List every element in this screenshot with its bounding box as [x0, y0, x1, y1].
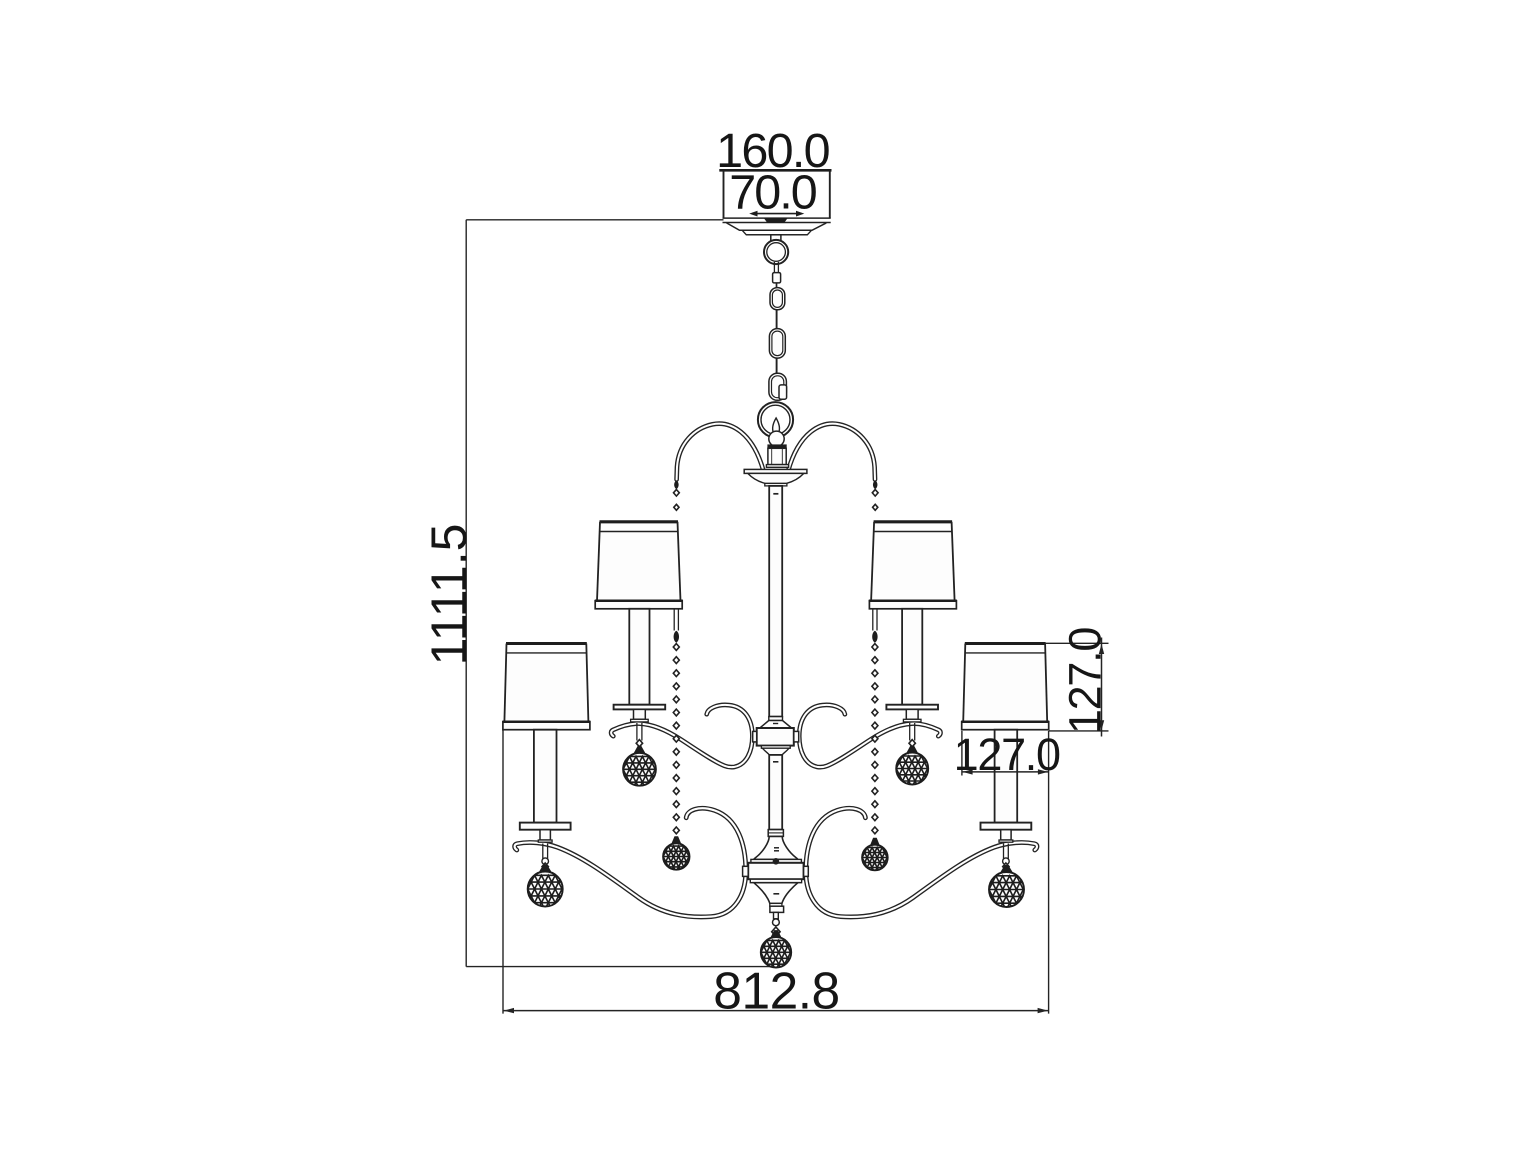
canopy mount block	[764, 218, 788, 223]
arrowhead 812.8 right	[1038, 1008, 1048, 1013]
chain link 1	[770, 288, 785, 310]
chain link 3	[769, 373, 787, 400]
extension line top (canopy bottom)	[466, 219, 723, 221]
chain link 3 sleeve	[779, 385, 787, 399]
upper arc right	[788, 424, 875, 480]
dimension line 812.8	[503, 1010, 1049, 1012]
chain link 2	[769, 329, 785, 359]
svg-text:127.0: 127.0	[954, 729, 1060, 780]
upper arm left	[611, 705, 752, 767]
upper arm right	[799, 705, 940, 767]
upper arc left	[677, 424, 764, 480]
upper cone	[760, 721, 792, 729]
bobeche bowl	[748, 473, 804, 483]
extension line 127.0 top right	[1045, 642, 1109, 644]
lower arm right	[806, 808, 1037, 917]
extension line 127.0 bottom right	[1049, 730, 1109, 732]
shade lower-right	[961, 644, 1049, 730]
mid collar	[768, 830, 783, 837]
chain wire 1	[776, 310, 778, 329]
extension line right 812.8 / 127.0	[1048, 731, 1050, 1014]
clevis link	[773, 262, 775, 273]
top ring	[758, 402, 793, 437]
dimension line 127.0 horizontal	[962, 771, 1049, 773]
extension line left 812.8	[502, 730, 504, 1014]
arrowhead 127.0 v bottom	[1099, 720, 1104, 730]
finial neck	[770, 903, 782, 906]
arc drop right	[873, 480, 878, 489]
column mid section	[769, 755, 782, 830]
top flame	[773, 418, 780, 434]
canopy box	[719, 169, 831, 172]
dimension line 127.0 vertical	[1101, 638, 1103, 737]
extension line 127.0h left	[961, 731, 963, 776]
top candle base	[766, 465, 788, 468]
canopy cone	[727, 223, 827, 230]
dimension arrow 70.0	[752, 213, 802, 215]
lower hub bell	[754, 883, 798, 904]
column upper section	[769, 486, 782, 717]
shade lower-left	[504, 644, 588, 722]
svg-text:1111.5: 1111.5	[421, 524, 477, 666]
shade upper-right	[869, 522, 957, 609]
arrowhead 127.0 h right	[1038, 769, 1048, 774]
arrowhead 812.8 left	[504, 1008, 514, 1013]
top candle body	[768, 448, 786, 464]
chain wire 2	[776, 358, 778, 373]
finial box	[770, 906, 784, 912]
bead chain left	[673, 609, 675, 631]
light lower-right	[995, 730, 1018, 823]
bead chain right	[872, 609, 874, 631]
svg-text:812.8: 812.8	[713, 962, 839, 1020]
column collar upper	[769, 717, 783, 721]
finial diamond	[772, 927, 780, 937]
light upper-right	[902, 609, 922, 705]
dimension line 1111.5 vertical	[465, 220, 467, 967]
top candle ball	[769, 431, 784, 446]
svg-text:127.0: 127.0	[1060, 628, 1111, 734]
upper hub bell	[762, 748, 789, 755]
canopy stem	[771, 235, 781, 246]
lower bell	[754, 836, 798, 859]
top candle collar	[768, 445, 786, 448]
light lower-left	[534, 730, 557, 823]
lower hub	[751, 859, 802, 862]
upper hub	[757, 728, 794, 746]
bobeche plate	[744, 469, 807, 473]
shade upper-left	[597, 522, 681, 601]
finial stem	[774, 912, 779, 918]
finial bead	[773, 919, 780, 926]
arc drop left	[674, 480, 679, 489]
light upper-left	[629, 609, 649, 705]
lower arm left	[515, 808, 746, 917]
arrowhead 127.0 v top	[1099, 644, 1104, 654]
hanging ring	[764, 240, 788, 264]
bobeche foot	[765, 483, 787, 486]
extension line bottom (fixture bottom)	[466, 966, 775, 968]
arrowhead 127.0 h left	[963, 769, 973, 774]
svg-text:70.0: 70.0	[729, 166, 816, 220]
